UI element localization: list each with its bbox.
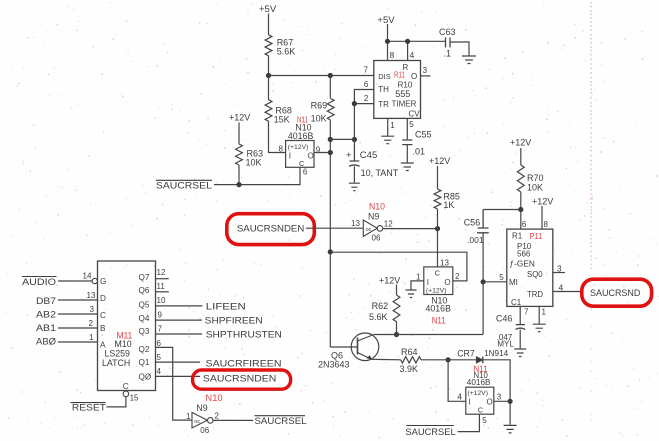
svg-text:2: 2 — [89, 319, 94, 328]
svg-text:(+12V): (+12V) — [288, 144, 309, 151]
svg-text:SAUCRSNDEN: SAUCRSNDEN — [237, 224, 304, 234]
mid switch pin 1 wire to ground — [411, 273, 424, 290]
svg-text:AB1: AB1 — [36, 323, 56, 334]
svg-text:4016B: 4016B — [467, 378, 491, 387]
svg-text:SAUCRSEL: SAUCRSEL — [255, 416, 307, 427]
wire Q1 pin 5 to SAUCRFIREEN — [156, 353, 201, 362]
net SHPTHRUSTEN label — [206, 330, 282, 341]
analog switch N11 middle box — [424, 267, 453, 295]
capacitor C46 — [496, 314, 525, 330]
566 internal labels — [509, 232, 543, 307]
svg-text:11: 11 — [157, 282, 166, 291]
svg-text:3: 3 — [557, 265, 562, 274]
wire R63 to SAUCRSEL node — [238, 165, 240, 185]
svg-text:D: D — [100, 294, 106, 303]
svg-text:5: 5 — [499, 273, 504, 282]
wire R70 to pin 6 — [521, 192, 527, 229]
pin 12 stub Q7 — [156, 268, 169, 279]
capacitor C56 — [464, 210, 489, 246]
label R62 5.6K — [369, 301, 388, 322]
net SAUCRSEL label lower-left — [255, 416, 307, 427]
566 pin 7 wire — [520, 306, 529, 324]
junction R62/collector — [394, 332, 399, 337]
svg-text:B: B — [100, 324, 106, 333]
net AB0 label — [36, 337, 57, 348]
resistor R70 — [517, 165, 524, 192]
labels above lower switch — [467, 371, 491, 387]
svg-text:C55: C55 — [415, 130, 432, 140]
svg-text:6: 6 — [303, 168, 308, 177]
resistor R85 — [434, 189, 441, 209]
svg-text:M10: M10 — [115, 339, 132, 349]
svg-text:7: 7 — [524, 308, 529, 317]
svg-text:+5V: +5V — [377, 15, 395, 26]
svg-text:AUDIO: AUDIO — [22, 277, 56, 288]
junction R70/C56 — [518, 207, 523, 212]
svg-text:6: 6 — [157, 339, 162, 348]
svg-text:10K: 10K — [246, 158, 262, 168]
junction C45 node — [352, 137, 357, 142]
wire C46 to ground — [519, 330, 521, 349]
ref M11 red — [117, 331, 133, 341]
svg-text:+12V: +12V — [379, 276, 400, 286]
wire RESET to clock bubble — [106, 397, 126, 407]
svg-text:R11: R11 — [394, 70, 405, 80]
red highlight box around SAUCRSND — [582, 279, 652, 306]
svg-text:1N914: 1N914 — [484, 349, 509, 358]
net SAUCRSNDEN label lower-left — [203, 374, 277, 385]
wire switch pin 6 label — [303, 168, 308, 177]
power +12V for 566 pin 8 — [532, 197, 553, 207]
wire SAUCRSNDEN to inverter pin 13 — [306, 219, 363, 228]
net AB1 label — [36, 323, 56, 334]
latch U M11 LS259 box — [98, 261, 156, 391]
svg-text:1: 1 — [542, 308, 547, 317]
inverter N9 bottom-left bubble — [208, 418, 214, 424]
svg-text:C56: C56 — [464, 218, 481, 228]
wire C56 row — [483, 209, 521, 211]
label 10 TANT — [361, 168, 399, 178]
wire Q5 pin 10 to LIFEEN — [156, 296, 203, 306]
power +5V for R67 — [259, 4, 277, 15]
svg-text:5: 5 — [157, 353, 162, 362]
svg-text:Q2: Q2 — [139, 345, 150, 354]
ground for C55 — [401, 163, 414, 171]
svg-text:Q6: Q6 — [139, 286, 150, 295]
wire Q2 pin 6 down to inverter N9 input — [156, 339, 192, 420]
ref N10 red middle inverter — [369, 202, 385, 212]
svg-text:+12V: +12V — [510, 138, 531, 148]
svg-text:1: 1 — [390, 121, 395, 130]
junction node R63/SAUCRSEL — [236, 182, 241, 187]
label Q6 2N3643 — [318, 351, 350, 370]
svg-text:AB2: AB2 — [36, 310, 56, 321]
svg-text:R69: R69 — [311, 101, 328, 111]
svg-text:3: 3 — [90, 305, 95, 314]
ref N11 red mid switch — [432, 316, 446, 326]
svg-text:Q1: Q1 — [139, 358, 150, 367]
net RESET label — [71, 402, 106, 413]
resistor R67 — [265, 35, 272, 56]
svg-text:1: 1 — [89, 333, 94, 342]
resistor R63 — [236, 144, 243, 165]
junction switch pin 3 node — [508, 399, 513, 404]
svg-text:DIS: DIS — [378, 72, 391, 81]
net SAUCRSEL label lower-right — [405, 426, 455, 439]
wire DIS rail to 555 pin 7 — [269, 66, 374, 76]
svg-text:C45: C45 — [360, 150, 377, 161]
inverter N9 middle triangle — [363, 220, 377, 236]
capacitor C55 — [402, 130, 431, 157]
svg-text:MYL: MYL — [497, 340, 514, 349]
junction R85/control node — [435, 226, 440, 231]
resistor R68 — [265, 76, 272, 122]
566 pin 5 wire — [483, 273, 507, 282]
power +12V for R63 — [229, 113, 250, 123]
label N9 bottom-left — [196, 403, 207, 413]
566 pin 4 wire to SAUCRSND — [553, 283, 582, 293]
power +12V for R70 — [510, 138, 531, 148]
wire C45 to ground — [353, 166, 355, 182]
svg-text:N10: N10 — [369, 202, 385, 212]
svg-text:15K: 15K — [274, 115, 290, 125]
net AUDIO label — [22, 277, 57, 289]
wire R68 to switch pin 8 — [269, 121, 286, 153]
svg-text:10K: 10K — [311, 114, 327, 124]
net DB7 label — [36, 296, 56, 307]
junction R69 top — [328, 73, 333, 78]
svg-text:4016B: 4016B — [288, 131, 314, 141]
svg-text:N10: N10 — [206, 393, 223, 403]
upper switch pin text — [288, 144, 314, 168]
resistor R62 — [393, 295, 400, 322]
svg-text:oc: oc — [194, 419, 200, 425]
svg-text:O: O — [487, 398, 493, 407]
svg-text:I: I — [289, 152, 291, 161]
svg-text:LIFEEN: LIFEEN — [206, 301, 246, 312]
wire emitter to R64 — [372, 358, 401, 361]
svg-text:Q4: Q4 — [139, 314, 150, 323]
svg-text:SAUCRSEL: SAUCRSEL — [156, 181, 212, 192]
svg-text:TR: TR — [378, 100, 389, 109]
ground for C45 — [349, 183, 360, 191]
wire +12V to R62 — [396, 285, 398, 296]
svg-text:CR7: CR7 — [457, 349, 475, 359]
svg-text:SAUCRSNDEN: SAUCRSNDEN — [203, 374, 277, 385]
junction R69/C45 row — [328, 137, 333, 142]
wire collector line — [374, 334, 484, 336]
label N9 middle — [368, 211, 379, 221]
power +12V for R85 — [429, 156, 450, 166]
label R63 10K — [246, 149, 264, 168]
svg-text:7: 7 — [158, 325, 163, 334]
function generator P11 566 box — [507, 229, 553, 306]
svg-text:13: 13 — [440, 259, 449, 268]
svg-text:2N3643: 2N3643 — [318, 360, 350, 370]
pin 11 stub Q6 — [156, 282, 169, 292]
svg-text:1K: 1K — [443, 200, 454, 210]
svg-text:.01: .01 — [413, 147, 426, 157]
svg-text:C: C — [478, 405, 484, 414]
net LIFEEN label — [206, 301, 246, 312]
svg-text:O: O — [308, 152, 314, 161]
svg-text:13: 13 — [351, 219, 360, 228]
svg-text:8: 8 — [544, 220, 549, 229]
net SAUCRFIREEN label — [206, 359, 282, 370]
wire R67 to DIS rail — [268, 56, 270, 76]
wire AB0 to pin 1 — [58, 333, 98, 342]
wire C63 to ground — [450, 42, 469, 56]
svg-text:R62: R62 — [372, 301, 389, 311]
svg-text:+12V: +12V — [229, 113, 250, 123]
svg-text:SHPFIREEN: SHPFIREEN — [205, 316, 263, 327]
svg-text:10: 10 — [157, 296, 166, 305]
wire R69 down main column — [329, 120, 331, 347]
ground for 555 pin 1 — [381, 136, 394, 144]
svg-text:R70: R70 — [527, 173, 544, 183]
net AB2 label — [36, 310, 56, 321]
transistor Q6 2N3643 — [351, 333, 379, 361]
wire Q4 pin 9 to SHPFIREEN — [156, 311, 202, 321]
capacitor C45 plus label — [346, 150, 377, 161]
label R68 15K — [274, 106, 292, 125]
junction R67/R68/DIS — [266, 73, 271, 78]
svg-text:8: 8 — [279, 145, 284, 154]
mid switch pin text — [426, 269, 451, 295]
mid switch pin 2 wire up-left to column — [330, 252, 467, 281]
junction 566 pin5 node — [481, 279, 486, 284]
net SAUCRSND label — [590, 288, 640, 298]
svg-text:N9: N9 — [368, 211, 379, 221]
wire C55 to ground — [406, 145, 408, 163]
svg-text:SQ0: SQ0 — [527, 270, 543, 279]
svg-text:2: 2 — [364, 94, 369, 103]
svg-text:3: 3 — [497, 393, 502, 402]
resistor R69 — [327, 76, 334, 121]
svg-text:LS259: LS259 — [105, 349, 131, 359]
svg-text:06: 06 — [200, 426, 209, 435]
svg-text:5.6K: 5.6K — [277, 47, 296, 57]
svg-text:13: 13 — [87, 291, 96, 300]
svg-text:TIMER: TIMER — [392, 100, 417, 109]
label R70 10K — [527, 173, 544, 193]
power +12V label for R62 — [379, 276, 400, 286]
svg-text:Q5: Q5 — [139, 301, 150, 310]
wire Q3 pin 7 to SHPTHRUSTEN — [156, 325, 203, 335]
svg-text:12: 12 — [384, 220, 393, 229]
ground for C46 — [514, 349, 526, 357]
svg-text:RESET: RESET — [72, 402, 106, 413]
wire AB1 to pin 2 — [58, 319, 98, 328]
ref N11 red upper switch — [297, 115, 308, 125]
svg-text:2: 2 — [215, 412, 220, 421]
junction TH/TR — [352, 101, 357, 106]
wire switch pin 3 to column — [494, 393, 510, 402]
svg-text:555: 555 — [395, 89, 410, 99]
svg-text:O: O — [444, 278, 450, 287]
ref R11 red in 555 — [394, 70, 405, 80]
label .047 MYL — [497, 333, 515, 348]
svg-text:G: G — [100, 277, 106, 286]
svg-text:R64: R64 — [401, 347, 418, 357]
svg-text:C46: C46 — [496, 314, 513, 324]
pin labels 8 4 — [390, 50, 415, 60]
svg-text:I: I — [469, 398, 471, 407]
wire TH pin 6 — [354, 80, 373, 104]
svg-text:C1: C1 — [511, 298, 522, 307]
capacitor C63 — [439, 27, 456, 59]
svg-text:15: 15 — [130, 394, 139, 403]
wire inverter 12 output to R85 node — [383, 228, 438, 230]
555 output pin 3 stub — [421, 66, 431, 76]
svg-text:TRD: TRD — [527, 290, 543, 299]
wire R62 to collector line — [396, 322, 398, 335]
svg-text:1: 1 — [186, 412, 191, 421]
label R64 3.9K — [400, 347, 419, 374]
label R67 5.6K — [277, 38, 296, 57]
wire TH/TR down to C45 node — [353, 104, 355, 140]
junction R64/CR7/switch — [446, 357, 451, 362]
wire C45 node to R69 column — [330, 138, 354, 140]
ground for mid switch pin 1 — [406, 290, 417, 298]
svg-text:4: 4 — [559, 283, 564, 293]
capacitor C45 — [349, 140, 360, 167]
svg-text:10K: 10K — [527, 183, 543, 193]
label N10 4016B upper — [288, 123, 314, 142]
wire switch pin 9 to column — [314, 146, 330, 155]
wire R85 to node — [437, 209, 439, 229]
555 internal labels — [378, 63, 420, 119]
svg-text:7: 7 — [364, 66, 369, 75]
svg-text:9: 9 — [158, 311, 163, 320]
svg-text:9: 9 — [316, 146, 321, 155]
svg-text:ƒ-GEN: ƒ-GEN — [510, 259, 535, 269]
label CR7 1N914 — [457, 349, 508, 359]
wire inverter output to SAUCRSEL lower-left — [213, 419, 253, 421]
svg-text:+12V: +12V — [429, 156, 450, 166]
svg-text:N9: N9 — [196, 403, 207, 413]
wire DB7 to pin 13 — [58, 291, 98, 300]
red highlight box around SAUCRSNDEN middle — [227, 214, 314, 245]
power +5V for 555 — [377, 15, 395, 26]
svg-text:C63: C63 — [439, 27, 456, 37]
junction switch pin 9 row — [328, 150, 333, 155]
svg-text:C: C — [123, 382, 129, 391]
svg-text:06: 06 — [372, 234, 381, 243]
svg-text:+5V: +5V — [259, 4, 277, 15]
svg-text:3.9K: 3.9K — [400, 364, 419, 374]
net SAUCRSEL label upper-left — [156, 180, 212, 191]
svg-text:SAUCRSEL: SAUCRSEL — [405, 427, 455, 438]
svg-text:SAUCRFIREEN: SAUCRFIREEN — [206, 359, 282, 370]
inverter N9 middle bubble — [372, 220, 394, 243]
wire diode node to anode — [448, 359, 476, 361]
net SHPFIREEN label — [205, 316, 263, 327]
wire +12V to R85 — [437, 166, 439, 189]
analog switch N11 upper box — [286, 141, 314, 168]
inverter N9 bottom-left triangle — [186, 412, 220, 436]
wire cathode to right column — [483, 360, 510, 425]
svg-text:C: C — [435, 269, 441, 278]
svg-text:SHPTHRUSTEN: SHPTHRUSTEN — [206, 330, 282, 341]
svg-text:oc: oc — [366, 227, 372, 233]
pin 14 bubble G input — [83, 272, 98, 284]
wire +5V to R67 — [268, 14, 270, 35]
timer U R11 555 box — [374, 61, 421, 119]
svg-text:566: 566 — [517, 250, 531, 259]
wire AUDIO to pin 14 — [58, 280, 92, 282]
wire diode node down to switch pin 4 — [448, 360, 466, 402]
svg-text:4: 4 — [410, 50, 415, 60]
svg-text:I: I — [427, 278, 429, 287]
svg-text:10, TANT: 10, TANT — [361, 168, 399, 178]
svg-text:.001: .001 — [467, 235, 484, 245]
ground for C63 — [462, 56, 476, 64]
svg-text:+: + — [346, 150, 352, 161]
red highlight box around SAUCRSNDEN lower-left — [193, 370, 291, 389]
svg-text:LATCH: LATCH — [102, 358, 130, 368]
resistor R64 — [401, 357, 421, 363]
svg-text:3: 3 — [423, 66, 428, 75]
wire +12V to R70 — [520, 148, 522, 165]
ground for 566 pin 1 — [533, 324, 546, 332]
svg-text:1: 1 — [416, 273, 421, 282]
ref N11 red lower switch — [474, 364, 488, 374]
wire +5V to pin8/pin4 rail — [388, 24, 446, 61]
ground lower right — [504, 425, 517, 433]
svg-text:MI: MI — [509, 278, 518, 287]
lower switch pin text — [467, 390, 492, 414]
svg-text:14: 14 — [83, 272, 92, 281]
latch pin letters — [100, 273, 152, 382]
ref P11 red in 566 — [529, 231, 542, 241]
svg-text:6: 6 — [522, 220, 527, 229]
junction pin 4 rail — [405, 39, 410, 44]
svg-text:DB7: DB7 — [36, 296, 56, 307]
svg-text:(+12V): (+12V) — [426, 288, 447, 295]
svg-text:8: 8 — [390, 50, 395, 60]
wire TR pin 2 — [354, 94, 373, 104]
wire SAUCRSEL to switch N11 pin 6 — [214, 167, 300, 184]
svg-text:(+12V): (+12V) — [467, 390, 488, 397]
wire Q0 pin 4 to SAUCRSNDEN — [156, 367, 201, 376]
svg-text:P11: P11 — [529, 231, 542, 241]
junction pin 8 rail — [385, 39, 390, 44]
wire switch pin 5 to SAUCRSEL — [458, 414, 488, 431]
ref N10 red bottom-left — [206, 393, 223, 403]
svg-text:Q7: Q7 — [139, 273, 150, 282]
wire AB2 to pin 3 — [58, 305, 98, 314]
svg-text:5.6K: 5.6K — [369, 312, 388, 322]
wire +12V to pin 8 — [542, 206, 549, 229]
svg-text:ABØ: ABØ — [36, 337, 57, 348]
svg-text:12: 12 — [157, 268, 166, 277]
svg-text:C: C — [100, 311, 106, 320]
svg-text:QØ: QØ — [139, 373, 152, 382]
diode CR7 — [476, 357, 482, 364]
svg-text:Q3: Q3 — [139, 327, 150, 336]
wire R64 to diode node — [421, 359, 448, 361]
svg-text:CV: CV — [409, 110, 421, 119]
svg-text:SAUCRSND: SAUCRSND — [590, 288, 640, 298]
566 pin 1 wire — [539, 306, 546, 323]
svg-text:6: 6 — [364, 80, 369, 89]
svg-text:5: 5 — [482, 416, 487, 425]
analog switch N11 lower box — [466, 387, 494, 414]
latch clock bubble pin 15 — [123, 391, 139, 402]
svg-text:R1: R1 — [512, 232, 523, 241]
svg-text:TH: TH — [378, 85, 389, 94]
